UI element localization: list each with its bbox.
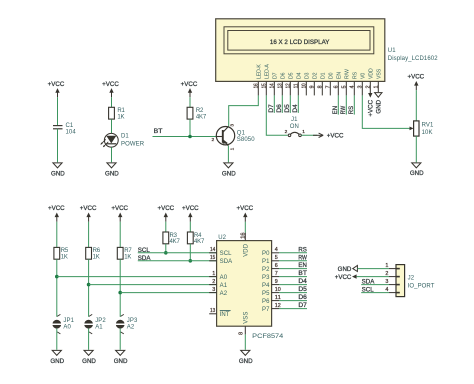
wire EN [337,95,339,114]
wire collector to LED-K [229,95,259,126]
junction (A0 net) [55,275,59,279]
svg-text:13: 13 [278,83,284,88]
wire net A2 [120,292,216,294]
capacitor C1 104 [53,125,63,127]
svg-text:LED-A: LED-A [265,64,271,79]
power +VCC (R6) [88,217,90,222]
svg-text:8: 8 [238,332,244,335]
svg-text:GND: GND [114,358,128,365]
wire RS [353,95,355,114]
svg-text:14: 14 [210,247,215,253]
svg-text:104: 104 [66,130,77,136]
svg-text:R7: R7 [124,248,132,254]
J2 pin stubs and numbers [389,268,396,270]
svg-text:VDD: VDD [244,243,250,257]
svg-text:GND: GND [410,170,424,177]
svg-text:R4: R4 [194,233,202,239]
svg-text:GND: GND [82,358,96,365]
power +VCC (C1) [57,92,59,97]
connector J2 IO_PORT body [396,265,405,297]
svg-text:R6: R6 [93,248,101,254]
ground (D1) [107,163,116,168]
svg-text:P1: P1 [262,259,270,265]
svg-text:P6: P6 [262,299,270,305]
wire U2 VSS to ground [244,334,246,349]
svg-text:+VCC: +VCC [368,99,375,116]
svg-text:GND: GND [50,358,64,365]
svg-text:6: 6 [334,85,340,88]
solder jumper JP2 A1 [89,314,92,316]
svg-text:1K: 1K [117,115,124,121]
svg-text:GND: GND [376,99,383,113]
IC U2 PCF8574 body [217,241,272,327]
power +VCC (R2) [189,92,191,97]
svg-text:12: 12 [286,83,292,88]
svg-text:LED-K: LED-K [257,64,263,79]
svg-text:JP3: JP3 [127,318,138,324]
svg-text:D1: D1 [121,133,129,139]
svg-text:V0: V0 [361,73,367,79]
svg-text:RW: RW [340,106,347,114]
wire net A1 [89,284,217,286]
svg-text:Q1: Q1 [237,131,246,137]
U1 pin stubs, numbers and names [257,81,259,95]
svg-text:GND: GND [51,170,65,177]
wire P->EN [279,268,307,270]
svg-text:3: 3 [230,124,236,127]
wire [415,136,417,162]
svg-text:P7: P7 [262,307,270,313]
wire [111,147,113,162]
svg-text:3: 3 [212,287,215,293]
U2 VDD pin 16 [244,233,246,241]
power +VCC (R1) [111,92,113,97]
svg-text:4: 4 [275,247,278,253]
svg-text:P0: P0 [262,251,270,257]
svg-text:Display_LCD1602: Display_LCD1602 [388,56,438,62]
svg-text:RV1: RV1 [422,123,434,129]
wire [357,276,389,278]
wire BT to base [153,136,217,138]
svg-text:D7: D7 [268,104,275,113]
wire J1 to +VCC [301,134,317,136]
svg-text:R3: R3 [170,233,178,239]
junction (SDA) [189,259,193,263]
power +VCC (J1, pointing right) [313,134,323,136]
wire P->D5 [279,292,307,294]
svg-text:GND: GND [338,266,352,273]
svg-text:BT: BT [298,270,307,277]
wire P->D7 [279,308,307,310]
svg-text:JP2: JP2 [95,318,106,324]
power +VCC (U2 VDD) [244,222,246,233]
wire [165,222,167,232]
svg-text:A2: A2 [220,291,228,297]
svg-text:R1: R1 [117,108,125,114]
svg-text:+VCC: +VCC [407,74,424,81]
svg-text:16: 16 [241,232,247,238]
power +VCC (RV1) [415,85,417,90]
svg-text:1K: 1K [93,255,100,261]
svg-text:4K7: 4K7 [170,239,181,245]
junction (SCL) [164,251,168,255]
svg-text:A2: A2 [127,325,135,331]
wire [56,222,58,248]
svg-text:BT: BT [154,128,163,135]
svg-text:7: 7 [326,85,332,88]
svg-text:D4: D4 [298,278,307,285]
ground (JP3) [116,350,125,355]
svg-text:D6: D6 [298,294,307,301]
svg-text:RS: RS [353,71,359,79]
svg-text:+VCC: +VCC [182,205,199,212]
wire SCL [138,252,217,254]
svg-text:J1: J1 [291,117,298,123]
wire [111,119,113,133]
wire [57,97,59,125]
svg-text:P2: P2 [262,267,270,273]
resistor R1 1K [109,107,115,119]
power +VCC (R4) [189,217,191,222]
svg-text:RW: RW [298,254,307,261]
wire R3 to SCL [165,244,167,253]
svg-text:C1: C1 [66,123,74,129]
svg-text:10: 10 [302,83,308,88]
wire P->BT [279,276,307,278]
svg-text:U2: U2 [218,235,226,241]
svg-text:J2: J2 [408,275,415,281]
junction [188,135,192,139]
svg-text:2: 2 [285,129,288,135]
transistor Q1 S8050 [216,127,234,145]
svg-text:11: 11 [294,83,300,88]
resistor R5 1K [54,247,60,259]
svg-text:1K: 1K [61,255,68,261]
svg-text:16 X 2 LCD DISPLAY: 16 X 2 LCD DISPLAY [270,40,330,46]
power +VCC (R3) [165,217,167,222]
resistor R2 4K7 [187,107,193,119]
solder jumper JP1 A0 [57,314,60,316]
svg-text:ON: ON [290,124,299,130]
svg-text:4: 4 [350,85,356,88]
svg-text:POWER: POWER [121,142,145,148]
svg-text:D5: D5 [289,72,295,79]
svg-text:GND: GND [105,170,119,177]
ground (RV1) [412,163,421,168]
svg-text:8: 8 [318,85,324,88]
wire V0 to RV1 wiper [362,95,409,128]
svg-text:D2: D2 [313,72,319,79]
svg-text:5: 5 [275,255,278,261]
power +VCC (R7) [119,217,121,222]
ground (JP2) [84,350,93,355]
svg-text:D3: D3 [305,72,311,79]
svg-text:R5: R5 [61,248,69,254]
wire RW [345,95,347,114]
resistor R3 4K7 [163,232,169,244]
wire [88,222,90,248]
svg-text:D5: D5 [298,286,307,293]
LED D1 POWER [104,133,118,147]
svg-text:GND: GND [239,358,253,365]
svg-text:R2: R2 [196,108,204,114]
svg-text:15: 15 [210,255,215,261]
wire [57,129,59,163]
svg-text:JP1: JP1 [63,318,74,324]
U2 VSS pin 8 [244,326,246,334]
ground (C1) [53,163,62,168]
svg-text:2: 2 [212,279,215,285]
wire D6 [281,95,283,113]
wire [119,329,121,350]
svg-text:EN: EN [332,106,339,114]
svg-text:D7: D7 [298,302,307,309]
svg-text:PCF8574: PCF8574 [252,333,284,340]
ground (U1 VSS) [375,93,382,98]
wire [88,329,90,350]
svg-text:SDA: SDA [220,259,233,265]
wire D7 [273,95,275,113]
svg-text:1K: 1K [124,255,131,261]
U2 INT overline [220,310,231,312]
wire R4 to SDA [189,244,191,261]
svg-text:GND: GND [222,170,236,177]
wire P->RS [279,252,307,254]
svg-text:IO_PORT: IO_PORT [408,283,435,289]
svg-text:4K7: 4K7 [194,239,205,245]
wire [361,284,389,286]
svg-text:4K7: 4K7 [196,115,207,121]
wire SDA [138,260,217,262]
wire D5 [289,95,291,113]
wire LED-A to J1 [266,95,287,135]
svg-text:1: 1 [302,129,305,135]
wire [189,97,191,107]
svg-text:+VCC: +VCC [236,205,253,212]
ground (U2) [241,350,250,355]
svg-text:+VCC: +VCC [111,205,128,212]
svg-text:16: 16 [254,83,260,88]
svg-text:+VCC: +VCC [102,81,119,88]
U2 left pins [209,252,216,254]
svg-text:2: 2 [212,137,215,143]
solder jumper JP3 A2 [121,314,124,316]
svg-text:S8050: S8050 [237,137,255,143]
wire [88,259,90,317]
wire [111,97,113,107]
svg-text:1: 1 [374,85,380,88]
wire [189,119,191,136]
svg-text:15: 15 [262,83,268,88]
wire [189,222,191,232]
svg-text:14: 14 [270,83,276,88]
svg-text:9: 9 [310,85,316,88]
power +VCC (R5) [56,217,58,222]
svg-text:EN: EN [337,72,343,79]
svg-text:+VCC: +VCC [48,205,65,212]
svg-text:D7: D7 [273,72,279,79]
resistor R7 1K [117,247,123,259]
wire P->D4 [279,284,307,286]
svg-text:3: 3 [358,85,364,88]
wire net A0 [57,276,217,278]
op-amp.. LCD module U1 Display_LCD1602 body [216,19,385,82]
svg-text:7: 7 [275,271,278,277]
svg-text:A1: A1 [95,325,103,331]
svg-text:D5: D5 [284,104,291,113]
svg-text:+VCC: +VCC [335,274,352,281]
svg-text:A0: A0 [220,275,228,281]
potentiometer RV1 10K [414,121,419,136]
svg-text:1: 1 [212,271,215,277]
wire P->RW [279,260,307,262]
svg-text:VDD: VDD [369,68,375,79]
svg-text:D1: D1 [321,72,327,79]
junction (A2 net) [118,291,122,295]
svg-text:1: 1 [230,147,236,150]
svg-text:+VCC: +VCC [157,205,174,212]
svg-text:EN: EN [298,262,307,269]
svg-text:VSS: VSS [377,68,383,79]
svg-text:+VCC: +VCC [80,205,97,212]
svg-text:D6: D6 [281,72,287,79]
svg-text:SCL: SCL [220,251,233,257]
svg-text:P4: P4 [262,283,270,289]
svg-text:A1: A1 [220,283,228,289]
resistor R6 1K [86,247,92,259]
wire [119,222,121,248]
svg-text:A0: A0 [63,325,71,331]
svg-text:D4: D4 [297,72,303,79]
svg-text:R/W: R/W [345,69,351,79]
svg-text:D0: D0 [329,72,335,79]
wire [56,259,58,317]
svg-text:+VCC: +VCC [327,133,344,140]
svg-text:INT: INT [220,312,230,318]
svg-text:6: 6 [275,263,278,269]
svg-text:+VCC: +VCC [181,81,198,88]
wire [56,329,58,350]
wire [415,90,417,121]
svg-text:P3: P3 [262,275,270,281]
svg-text:10K: 10K [422,130,433,136]
svg-text:9: 9 [275,279,278,285]
svg-text:13: 13 [210,308,215,314]
ground (JP1) [52,350,61,355]
svg-text:2: 2 [366,85,372,88]
wire emitter to ground [227,146,229,163]
wire [119,259,121,317]
svg-text:VSS: VSS [244,311,250,323]
resistor R4 4K7 [187,232,193,244]
wire [361,292,389,294]
wire [357,268,389,270]
svg-text:U1: U1 [388,48,396,54]
svg-text:+VCC: +VCC [48,81,65,88]
svg-text:D4: D4 [292,104,299,113]
svg-text:RS: RS [298,246,307,253]
ground (Q1) [224,163,233,168]
svg-text:RS: RS [348,106,355,114]
svg-text:5: 5 [342,85,348,88]
power +VCC (U1 VDD, pointing down) [369,92,371,93]
svg-text:D6: D6 [276,104,283,113]
wire P->D6 [279,300,307,302]
svg-text:P5: P5 [262,291,270,297]
wire D4 [297,95,299,113]
junction (A1 net) [87,283,91,287]
